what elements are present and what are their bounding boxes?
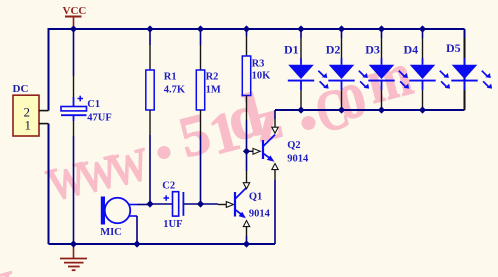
LED D3: [365, 29, 409, 110]
svg-text:47UF: 47UF: [87, 112, 112, 123]
svg-text:DC: DC: [13, 83, 29, 95]
svg-text:MIC: MIC: [100, 227, 122, 238]
wire MIC ground drop: [136, 216, 138, 244]
svg-text:Q2: Q2: [287, 140, 300, 151]
svg-text:10K: 10K: [252, 71, 272, 82]
node junction dots top rail: [70, 25, 426, 32]
wire R2 top lead: [200, 29, 202, 70]
watermark www.51dz.com: [38, 40, 419, 214]
transistor Q2 9014: [253, 127, 309, 169]
wire top rail: [49, 28, 465, 30]
LED D4: [404, 29, 451, 110]
resistor R2 1M: [196, 70, 221, 110]
wire Q2 base from R3 column: [247, 150, 254, 152]
LED D2: [326, 29, 369, 110]
wire R1 bottom lead: [149, 110, 151, 204]
wire left vertical lower: [48, 124, 50, 244]
wire Q1 emitter to bottom rail: [246, 227, 248, 244]
resistor R1 4.7K: [146, 70, 186, 110]
watermark fragment bottom-left: [0, 247, 22, 277]
svg-text:C1: C1: [87, 99, 100, 110]
svg-text:D3: D3: [365, 43, 380, 57]
wire LED bottom rail: [275, 109, 465, 111]
node bottom rail junctions: [70, 240, 250, 247]
svg-text:D2: D2: [326, 43, 341, 57]
svg-text:9014: 9014: [287, 154, 309, 165]
wire R2 bottom lead: [200, 110, 202, 204]
svg-text:R2: R2: [206, 71, 219, 82]
svg-text:1: 1: [25, 118, 32, 133]
wire R3 bottom lead to Q1 collector: [246, 96, 248, 183]
svg-text:R1: R1: [164, 71, 177, 82]
wire VCC column to C1: [73, 29, 75, 97]
svg-text:VCC: VCC: [63, 5, 87, 17]
connector DC: [13, 83, 49, 136]
wire node to C2: [150, 203, 173, 205]
capacitor C2 1UF: [162, 180, 183, 230]
capacitor C1 47UF: [61, 96, 112, 124]
svg-text:4.7K: 4.7K: [164, 84, 186, 95]
node signal junctions: [146, 148, 250, 208]
resistor R3 10K: [242, 56, 271, 96]
svg-text:D4: D4: [404, 43, 419, 57]
wire R1 top lead: [149, 29, 151, 70]
svg-text:R3: R3: [252, 58, 265, 69]
svg-text:C2: C2: [162, 180, 175, 191]
wire right edge vertical (D5 column): [464, 29, 466, 110]
microphone MIC: [100, 197, 137, 239]
wire Q2 collector to LED rail: [274, 110, 276, 127]
svg-text:D1: D1: [284, 43, 299, 57]
svg-text:1M: 1M: [206, 84, 221, 95]
svg-text:D5: D5: [446, 41, 461, 55]
svg-text:Q1: Q1: [249, 192, 262, 203]
svg-text:9014: 9014: [249, 208, 271, 219]
power VCC: [63, 5, 87, 29]
wire C2 to Q1 base: [183, 203, 226, 206]
LED D5: [446, 29, 492, 110]
ground: [60, 244, 87, 270]
transistor Q1 9014: [226, 183, 270, 227]
wire left vertical upper: [48, 28, 50, 111]
wire Q2 emitter to bottom rail: [274, 170, 276, 244]
wire R3 top lead: [246, 29, 248, 56]
LED D1: [284, 29, 329, 110]
wire C1 to bottom rail: [73, 121, 75, 244]
wire MIC signal to node: [137, 204, 150, 206]
node junction dots LED bottom rail: [297, 106, 426, 113]
svg-text:1UF: 1UF: [163, 219, 182, 230]
wire bottom rail: [49, 243, 276, 245]
